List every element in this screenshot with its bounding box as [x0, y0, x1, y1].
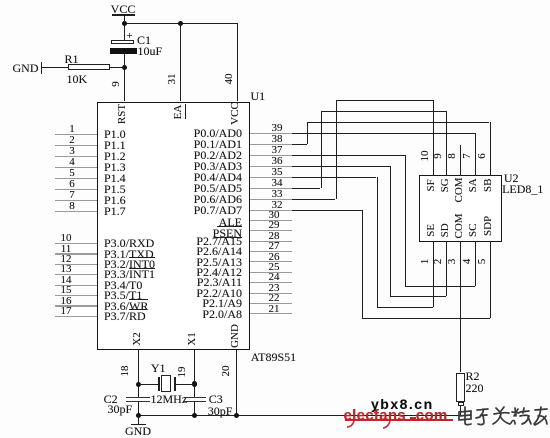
U1 pin name P2.4/A12	[196, 266, 242, 279]
U2 pin 6 SB wire	[490, 122, 491, 175]
U1 pin 38 stub	[250, 144, 292, 145]
crystal Y1	[158, 377, 159, 391]
U1 pin name P2.5/A13	[196, 256, 242, 269]
ground GND left	[13, 62, 39, 75]
U1 pin name P0.2/AD2	[194, 149, 242, 162]
junction X2/crystal	[136, 382, 141, 387]
U1 pin 32 stub	[250, 210, 292, 211]
wire C1 to RST junction	[124, 54, 125, 102]
C2 value 30pF	[108, 403, 133, 416]
U1 pin 25 stub	[250, 272, 292, 273]
pin number 2	[69, 135, 75, 147]
U1 pin 40 VCC name	[230, 102, 242, 125]
wire VCC horizontal distribution	[124, 23, 238, 24]
pin number 5	[69, 168, 75, 180]
capacitor C1	[111, 40, 134, 44]
U1 pin name P2.1/A9	[202, 297, 242, 310]
pin number 10	[420, 149, 432, 163]
pin number 38	[272, 134, 283, 146]
U1 pin name P3.0	[104, 237, 154, 250]
U2 pin name COM	[454, 177, 466, 203]
junction X1/crystal	[192, 381, 197, 386]
U1 pin 12 stub	[55, 264, 97, 265]
wire crystal left	[138, 384, 158, 385]
pin number 3	[447, 256, 459, 267]
U1 pin 33 stub	[250, 199, 292, 200]
pin number 23	[269, 283, 280, 295]
pin number 7	[462, 149, 474, 163]
pin number 32	[272, 200, 283, 212]
wire C3 to rail	[194, 401, 195, 415]
U1 pin name P3.5	[104, 289, 142, 302]
wire GND pin20 vertical	[236, 350, 237, 416]
U1 pin name P2.2/A10	[196, 287, 242, 300]
pin number 39	[272, 123, 283, 135]
U1 designator	[251, 90, 266, 103]
U1 pin 22 stub	[250, 303, 292, 304]
U1 pin 3 stub	[55, 156, 97, 157]
R1 value 10K	[67, 73, 88, 86]
wire net AD5 P0.5 to SG	[292, 188, 321, 189]
pin number 6	[477, 149, 489, 163]
U1 pin name P2.6/A14	[196, 245, 242, 258]
pin number 11	[61, 244, 72, 256]
junction at R1/RST	[122, 65, 127, 70]
pin number 18	[120, 364, 132, 378]
U2 pin name SE	[426, 222, 438, 239]
U2 pin 4 SC wire	[475, 241, 476, 285]
U1 pin 2 stub	[55, 145, 97, 146]
U2 pin name SG	[440, 177, 452, 194]
U1 pin name ALE	[219, 216, 242, 229]
wire X2 vertical	[138, 350, 139, 397]
U1 pin name P1.4	[104, 172, 126, 185]
U2 pin name COM	[454, 213, 466, 239]
U1 pin name P1.1	[104, 139, 126, 152]
ground GND bottom symbol	[138, 415, 139, 424]
U1 pin name P3.2	[104, 258, 155, 271]
U1 pin name P3.3	[104, 268, 155, 281]
pin number 17	[61, 306, 72, 318]
C1 value 10uF	[138, 45, 163, 58]
pin number 6	[69, 179, 75, 191]
U1 pin 13 stub	[55, 274, 97, 275]
U1 pin 9 RST name	[117, 103, 129, 125]
wire crystal right	[174, 384, 194, 385]
U1 pin name P1.6	[104, 194, 126, 207]
capacitor C3	[184, 397, 206, 398]
pin number 4	[69, 157, 75, 169]
pin number 1	[69, 124, 75, 136]
wire VCC vertical to RST net	[124, 14, 125, 40]
pin number 29	[269, 220, 280, 232]
wire X1 vertical	[194, 350, 195, 397]
U1 pin 11 stub	[55, 253, 97, 254]
U1 pin name P1.5	[104, 183, 126, 196]
watermark chinese characters	[456, 404, 550, 430]
U2 pin 3 COM wire	[460, 241, 461, 372]
wire net AD4 P0.4 to SE	[292, 177, 377, 178]
U1 pin name P0.3/AD3	[194, 160, 242, 173]
C3 value 30pF	[208, 405, 233, 418]
U2 pin name SC	[468, 222, 480, 239]
U1 pin name P0.0/AD0	[194, 127, 242, 140]
U1 pin 31 EA name	[173, 104, 185, 120]
R2 label	[466, 370, 480, 383]
pin number 35	[272, 167, 283, 179]
C1 plus sign	[127, 31, 133, 43]
pin number 19	[177, 365, 189, 379]
U1 pin 35 stub	[250, 177, 292, 178]
U1 part number AT89S51	[251, 351, 296, 364]
U2 pin name SF	[426, 177, 438, 194]
U1 pin 1 stub	[55, 134, 97, 135]
pin number 36	[272, 156, 283, 168]
U1 pin 15 stub	[55, 295, 97, 296]
pin number 9	[433, 149, 445, 163]
pin number 10	[61, 233, 72, 245]
junction at VCC/C1 branch	[122, 21, 127, 26]
U1 pin 29 stub	[250, 230, 292, 231]
U1 pin 4 stub	[55, 167, 97, 168]
pin number 22	[269, 293, 280, 305]
U1 pin 18 X2 name	[132, 331, 144, 347]
U1 pin 27 stub	[250, 251, 292, 252]
power VCC symbol	[111, 3, 136, 16]
U1 pin 17 stub	[55, 316, 97, 317]
pin number 24	[269, 272, 280, 284]
pin number 3	[69, 146, 75, 158]
U1 pin name P0.1/AD1	[194, 138, 242, 151]
U2 pin 10 SF wire	[433, 100, 434, 175]
U1 pin name P0.6/AD6	[194, 193, 242, 206]
U1 pin name P0.4/AD4	[194, 171, 242, 184]
U1 pin 14 stub	[55, 285, 97, 286]
U1 pin name P0.7/AD7	[194, 204, 242, 217]
U1 pin 7 stub	[55, 200, 97, 201]
Y1 value 12MHz	[151, 393, 188, 406]
resistor R2	[456, 373, 464, 403]
U1 pin name P2.3/A11	[197, 276, 242, 289]
U1 pin 10 stub	[55, 243, 97, 244]
pin number 34	[272, 178, 283, 190]
R2 value 220	[466, 382, 484, 395]
pin number 37	[272, 145, 283, 157]
U1 pin 34 stub	[250, 188, 292, 189]
EA overline bar	[185, 104, 186, 119]
watermark ybx8.cn	[371, 397, 434, 412]
U1 pin name P0.5/AD5	[194, 182, 242, 195]
wire pin40 VCC vertical	[237, 23, 238, 101]
pin number 25	[269, 262, 280, 274]
pin number 12	[61, 254, 72, 266]
U1 pin name P1.2	[104, 150, 126, 163]
microcontroller U1 box	[97, 102, 251, 350]
U2 pin name SD	[440, 222, 452, 239]
pin number 14	[61, 275, 72, 287]
resistor R1	[68, 64, 109, 70]
pin number 13	[61, 264, 72, 276]
wire net AD3 P0.3 to SD	[292, 166, 391, 167]
wire net AD6 P0.6 to SF	[292, 199, 336, 200]
U2 pin 7 SA wire	[475, 133, 476, 175]
U2 pin 8 COM wire	[460, 145, 461, 175]
U1 pin 21 stub	[250, 313, 292, 314]
C2 label	[104, 393, 118, 406]
display U2 box	[419, 175, 502, 242]
pin number 9	[111, 79, 123, 89]
U1 pin name P2.0/A8	[202, 308, 242, 321]
pin number 7	[69, 190, 75, 202]
U1 pin 23 stub	[250, 293, 292, 294]
wire net AD7 P0.7 to SDP	[292, 210, 362, 211]
pin number 1	[420, 256, 432, 267]
U1 pin 16 stub	[55, 305, 97, 306]
wire EA vertical	[180, 23, 181, 101]
U2 pin 9 SG wire	[446, 111, 447, 175]
wire net AD2 P0.2 to SC	[292, 155, 405, 156]
pin number 20	[221, 364, 233, 378]
pin number 40	[224, 72, 236, 86]
U1 pin 8 stub	[55, 211, 97, 212]
U1 pin 36 stub	[250, 166, 292, 167]
U2 pin name SA	[468, 177, 480, 194]
pin number 15	[61, 285, 72, 297]
U1 pin 26 stub	[250, 261, 292, 262]
wire ground rail	[137, 415, 461, 416]
U2 pin 1 SE wire	[433, 241, 434, 307]
U1 pin 6 stub	[55, 189, 97, 190]
U1 pin name P1.3	[104, 161, 126, 174]
U1 pin 20 GND name	[230, 324, 242, 348]
U1 pin 30 stub	[250, 220, 292, 221]
pin number 16	[61, 296, 72, 308]
U2 pin name SDP	[483, 213, 495, 239]
junction at EA branch	[178, 21, 183, 26]
pin number 4	[462, 256, 474, 267]
pin number 5	[477, 256, 489, 267]
U1 pin name P3.7	[104, 310, 146, 323]
junction C2/rail	[136, 413, 141, 418]
pin number 2	[433, 256, 445, 267]
wire C2 to rail	[138, 401, 139, 415]
U2 part LED8_1	[502, 183, 543, 196]
pin number 28	[269, 231, 280, 243]
U2 pin name SB	[483, 177, 495, 194]
junction pin20/rail	[234, 413, 239, 418]
pin number 26	[269, 252, 280, 264]
U1 pin 37 stub	[250, 155, 292, 156]
capacitor C2	[126, 397, 150, 398]
U1 pin name P1.7	[104, 205, 126, 218]
wire net AD0 P0.0 to SA	[292, 133, 475, 134]
R1 label	[65, 53, 79, 66]
U1 pin name P1.0	[104, 128, 126, 141]
watermark elecfans.com	[344, 408, 406, 424]
U1 pin 19 X1 name	[187, 331, 199, 347]
wire net AD1 P0.1 to SB	[292, 144, 307, 145]
U1 pin name P3.1	[104, 248, 154, 261]
pin number 27	[269, 241, 280, 253]
U2 pin 2 SD wire	[446, 241, 447, 296]
wire R2 to ground rail	[460, 406, 461, 415]
wire R1 to RST vertical	[110, 67, 124, 68]
U2 designator	[504, 172, 519, 185]
U1 pin name PSEN	[213, 227, 242, 240]
U1 pin name P3.6	[104, 300, 148, 313]
U1 pin name P2.7/A15	[196, 235, 242, 248]
U1 pin name P3.4	[104, 279, 142, 292]
pin number 30	[269, 210, 280, 222]
U1 pin 28 stub	[250, 241, 292, 242]
pin number 21	[269, 304, 280, 316]
U2 pin 5 SDP wire	[490, 241, 491, 318]
U1 pin 24 stub	[250, 282, 292, 283]
pin number 8	[447, 149, 459, 163]
U1 pin 39 stub	[250, 133, 292, 134]
C1 label	[137, 34, 151, 47]
wire GND to R1	[42, 67, 69, 68]
Y1 label	[151, 362, 166, 375]
junction C3/rail	[192, 413, 197, 418]
pin number 33	[272, 189, 283, 201]
U1 pin 5 stub	[55, 178, 97, 179]
pin number 31	[167, 72, 179, 86]
C3 label	[209, 393, 223, 406]
pin number 8	[69, 201, 75, 213]
